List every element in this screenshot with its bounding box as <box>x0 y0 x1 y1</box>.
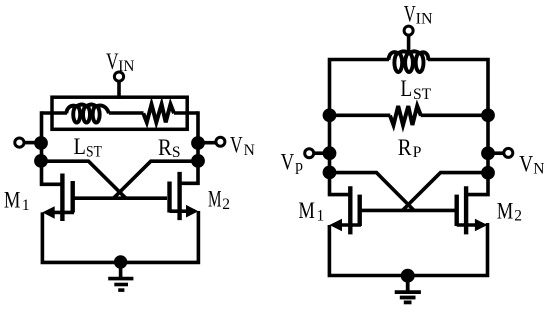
svg-text:R: R <box>398 135 412 160</box>
transistor M1 (right circuit) channel bar <box>358 195 362 226</box>
ground (left circuit) <box>108 262 133 290</box>
label V_IN (left circuit) <box>106 49 134 75</box>
svg-text:N: N <box>244 142 255 159</box>
wire drain line (right circuit) <box>361 209 456 213</box>
svg-text:1: 1 <box>317 207 325 224</box>
transistor M2 (right circuit) source arrow <box>475 219 488 232</box>
transistor M2 (right circuit) gate bar <box>464 186 468 234</box>
wire sources to bottom rail (right circuit) <box>329 223 487 276</box>
svg-text:ST: ST <box>86 143 102 160</box>
transistor M2 source lead <box>170 209 196 213</box>
node dot right terminal junction <box>191 136 205 150</box>
node dot ground junction (right circuit) <box>401 269 415 283</box>
node dot V_N junction (right circuit) <box>481 146 495 160</box>
resistor R_P (right circuit zigzag) <box>390 106 421 125</box>
terminal V_N right circuit (open circle) <box>504 148 513 157</box>
svg-text:S: S <box>172 144 181 161</box>
transistor M2 (left circuit) gate bar <box>177 172 181 220</box>
svg-text:ST: ST <box>413 86 432 103</box>
wire drain line (left circuit) <box>74 196 167 200</box>
transistor M1 (right circuit) source arrow <box>329 219 342 232</box>
inductor L_ST (right circuit coil) <box>388 51 428 72</box>
middle rail with resistor (right circuit) <box>330 114 391 118</box>
wire cross-coupling left branch (right circuit) <box>330 173 415 211</box>
terminal left (open circle, unlabeled) <box>15 138 24 147</box>
label R_P (right circuit) <box>398 135 422 161</box>
svg-text:V: V <box>230 133 243 158</box>
label M2 (left circuit) <box>208 186 230 213</box>
resistor R_S (left circuit zigzag) <box>143 104 174 122</box>
svg-text:p: p <box>295 157 303 174</box>
svg-text:2: 2 <box>514 207 522 224</box>
wire tank right lead <box>174 111 198 115</box>
wire cross-coupling right branch <box>114 161 199 198</box>
svg-text:M: M <box>298 198 315 223</box>
node dot V_p junction <box>323 146 337 160</box>
transistor M2 source arrow <box>186 205 198 218</box>
svg-text:1: 1 <box>22 197 30 214</box>
transistor M1 source lead <box>46 211 74 215</box>
transistor M2 (right circuit) channel bar <box>455 195 459 226</box>
svg-text:V: V <box>281 149 295 174</box>
label L_ST (left circuit) <box>74 134 103 161</box>
left rail (right circuit) <box>330 113 353 195</box>
terminal V_IN right circuit (open circle) <box>404 26 413 35</box>
label R_S (left circuit) <box>158 135 181 161</box>
label M2 (right circuit) <box>497 199 522 225</box>
wire cross-coupling left branch <box>41 161 126 198</box>
transistor M2 channel bar <box>167 182 171 213</box>
svg-text:M: M <box>208 186 222 211</box>
svg-text:IN: IN <box>416 11 433 28</box>
left rail (left circuit) <box>42 111 65 184</box>
svg-text:2: 2 <box>222 196 230 213</box>
wire V_IN stub <box>117 81 121 99</box>
svg-text:V: V <box>106 49 119 74</box>
terminal V_IN left circuit (open circle) <box>114 72 123 81</box>
transistor M1 (right circuit) source lead <box>333 223 361 227</box>
node dot ground junction (left circuit) <box>114 255 127 268</box>
wire V_IN stub (right) <box>407 35 411 54</box>
node dot left terminal junction <box>34 136 48 150</box>
label M1 (left circuit) <box>4 188 30 214</box>
wire between coil and resistor <box>109 111 144 115</box>
node dot right cross junction (right circuit) <box>481 166 495 180</box>
label V_N (right circuit) <box>519 151 544 177</box>
label V_N (left circuit) <box>230 133 255 159</box>
transistor M2 (right circuit) source lead <box>457 223 484 227</box>
svg-text:P: P <box>413 144 422 161</box>
wire tank left lead <box>42 111 68 115</box>
transistor M1 (right circuit) gate bar <box>348 186 352 234</box>
inductor L_ST (left circuit coil) <box>66 104 109 122</box>
transistor M1 source arrow <box>42 206 54 219</box>
svg-text:N: N <box>533 160 544 177</box>
terminal V_N (open circle, left circuit) <box>216 137 225 146</box>
right rail (left circuit) <box>178 111 198 183</box>
wire V_p to node <box>314 151 324 155</box>
label V_IN (right circuit) <box>404 2 433 28</box>
node dot left cross junction <box>34 154 48 168</box>
wire cross-coupling right branch (right circuit) <box>403 173 489 211</box>
top rail (right circuit) <box>330 60 390 116</box>
label V_p <box>281 149 304 174</box>
svg-text:R: R <box>158 135 172 160</box>
transistor M1 (left circuit) gate bar <box>60 174 64 222</box>
transistor M1 channel bar <box>70 181 74 213</box>
node dot left cross junction (right circuit) <box>323 166 337 180</box>
node dot middle rail right <box>481 108 495 122</box>
right rail (right circuit) <box>464 113 488 195</box>
wire node to V_N terminal (right) <box>494 151 504 155</box>
wire node to V_N terminal <box>204 141 216 145</box>
svg-text:V: V <box>404 2 416 27</box>
svg-text:V: V <box>519 151 533 176</box>
wire terminal to node <box>24 141 36 145</box>
svg-text:L: L <box>74 134 86 159</box>
wire M1 source to ground rail, bottom rail, M2 source rail <box>42 211 198 262</box>
svg-text:L: L <box>400 76 412 101</box>
ground (right circuit) <box>395 276 421 303</box>
label L_ST (right circuit) <box>400 76 431 103</box>
svg-text:M: M <box>4 188 21 213</box>
terminal V_p (open circle) <box>305 149 314 158</box>
tank box (left circuit) <box>52 97 187 129</box>
svg-text:M: M <box>497 199 514 224</box>
node dot right cross junction <box>191 154 205 168</box>
node dot middle rail left <box>323 108 337 122</box>
label M1 (right circuit) <box>298 198 324 224</box>
